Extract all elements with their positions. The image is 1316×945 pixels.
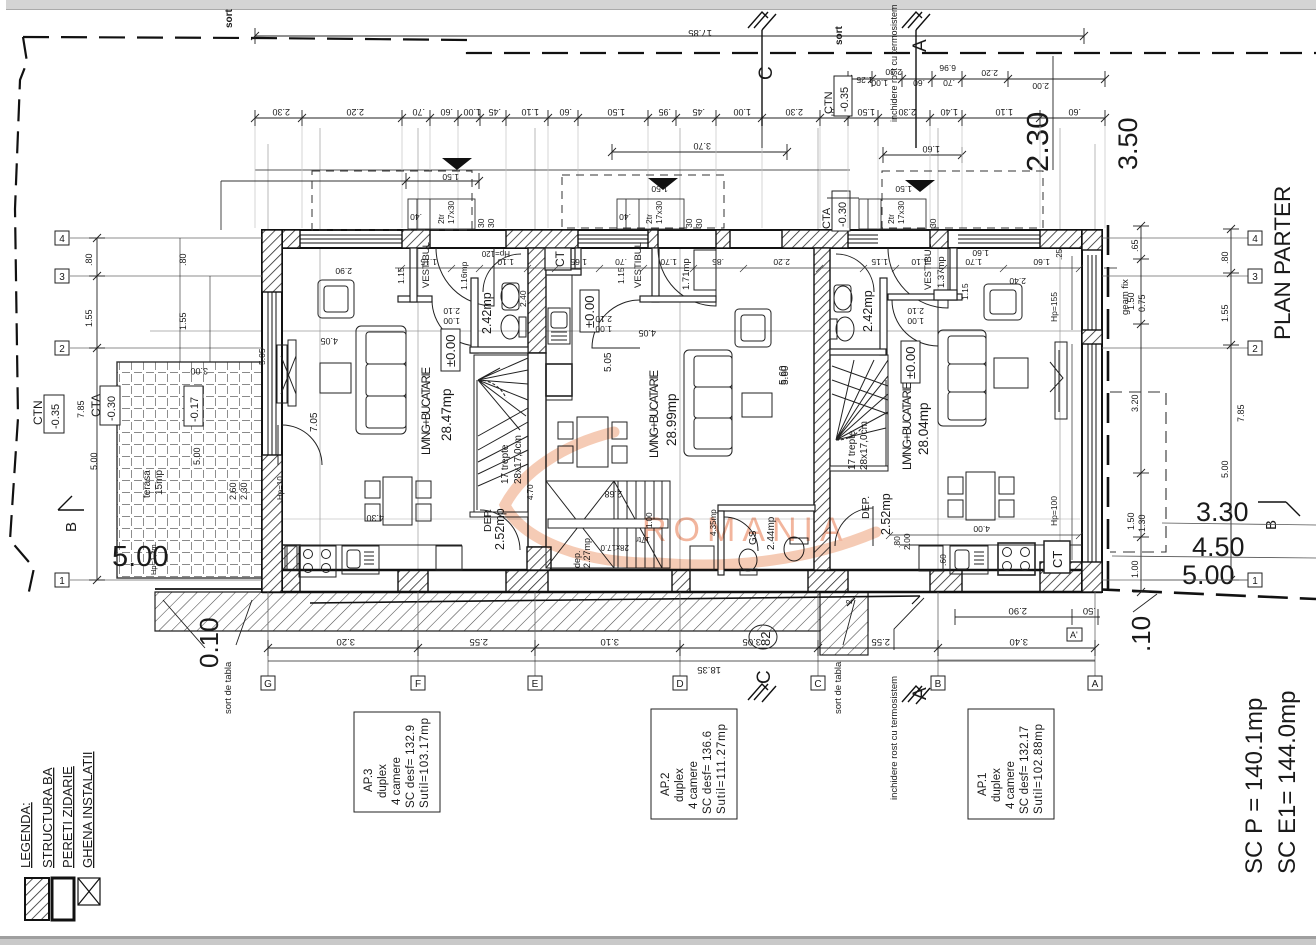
svg-text:2tr: 2tr	[644, 214, 654, 224]
svg-text:1.00: 1.00	[595, 324, 612, 334]
svg-text:2.20: 2.20	[981, 68, 998, 78]
AP3 dep wall	[470, 512, 528, 517]
svg-text:7.05: 7.05	[309, 412, 320, 432]
svg-text:7.85: 7.85	[76, 400, 86, 418]
svg-text:3.20: 3.20	[337, 636, 356, 647]
svg-text:5.00: 5.00	[192, 447, 202, 465]
svg-text:.80: .80	[1220, 251, 1230, 264]
svg-text:1.10: 1.10	[995, 107, 1013, 117]
svg-text:0.10: 0.10	[194, 617, 224, 668]
pier party2 T	[782, 230, 848, 248]
svg-text:±0.00: ±0.00	[582, 296, 597, 328]
svg-text:5.60: 5.60	[778, 365, 789, 385]
AP1 kitchen counter	[900, 544, 1082, 546]
svg-text:1.15: 1.15	[960, 283, 970, 300]
AP3 bath walls	[471, 278, 478, 353]
svg-text:30: 30	[684, 218, 694, 228]
pier top-left corner	[262, 230, 300, 248]
svg-text:geam fix: geam fix	[1120, 279, 1131, 315]
svg-text:1.16mp: 1.16mp	[459, 261, 469, 290]
svg-text:Hp=100: Hp=100	[1049, 496, 1059, 526]
svg-text:3.20: 3.20	[1130, 394, 1140, 412]
svg-text:18.35: 18.35	[697, 664, 721, 675]
svg-text:C: C	[754, 670, 775, 684]
svg-text:.70: .70	[615, 257, 627, 267]
svg-text:1.70: 1.70	[965, 257, 982, 267]
svg-text:.50: .50	[1083, 605, 1096, 616]
AP3 stove	[299, 546, 336, 577]
AP1 vestibul wall	[888, 294, 962, 300]
svg-text:1.50: 1.50	[857, 107, 875, 117]
section mark B left	[58, 496, 84, 510]
svg-text:30: 30	[694, 218, 704, 228]
svg-text:CT: CT	[553, 250, 567, 267]
svg-text:-0.30: -0.30	[106, 396, 118, 421]
svg-text:17x30: 17x30	[896, 201, 906, 224]
svg-text:5.00: 5.00	[1182, 560, 1235, 590]
svg-text:Hp=10: Hp=10	[276, 476, 285, 500]
AP1 bath wc	[836, 317, 854, 341]
svg-text:.40: .40	[410, 212, 422, 222]
pier	[672, 570, 690, 592]
svg-text:.60: .60	[440, 107, 453, 117]
svg-text:A: A	[910, 39, 931, 52]
svg-text:AP.2: AP.2	[660, 773, 672, 796]
svg-text:2.00: 2.00	[902, 533, 912, 550]
svg-text:.25: .25	[1055, 248, 1064, 260]
AP2 armchair	[735, 309, 771, 347]
left exterior wall	[262, 230, 282, 592]
property boundary dashed right	[1090, 225, 1316, 599]
svg-text:SC desf= 132.17: SC desf= 132.17	[1019, 726, 1031, 814]
svg-text:.45: .45	[692, 107, 705, 117]
svg-text:1.50: 1.50	[895, 184, 912, 194]
AP2 stairs straight flight	[546, 481, 670, 568]
svg-text:1: 1	[1252, 576, 1258, 587]
svg-text:-0.35: -0.35	[839, 87, 851, 112]
svg-text:E: E	[532, 679, 539, 690]
AP1 bath walls	[880, 278, 887, 355]
left grid lines	[70, 238, 262, 580]
AP2 GS walls	[718, 505, 815, 511]
AP3 vestibul-living door swing	[432, 300, 478, 346]
AP1 stove	[998, 543, 1035, 575]
terrace tiled	[117, 362, 262, 578]
AP3 sink	[342, 546, 379, 574]
3.70 dim	[608, 144, 791, 160]
legend	[18, 751, 100, 920]
svg-text:B: B	[935, 679, 942, 690]
svg-text:C: C	[814, 679, 821, 690]
pier	[930, 570, 962, 592]
svg-text:±0.00: ±0.00	[903, 347, 918, 379]
right bottom dims 2.90 .50	[955, 609, 1100, 625]
AP3 coffee table	[320, 363, 351, 393]
svg-text:1.55: 1.55	[84, 309, 94, 327]
secondary top-right chain	[844, 56, 1109, 170]
svg-text:duplex: duplex	[991, 768, 1003, 802]
svg-text:±0.00: ±0.00	[443, 335, 458, 367]
svg-text:.40: .40	[619, 212, 631, 222]
svg-text:2.20: 2.20	[346, 107, 364, 117]
svg-text:.70: .70	[412, 107, 425, 117]
svg-text:2.30: 2.30	[239, 482, 249, 500]
AP3 armchair	[318, 280, 354, 318]
svg-text:LIVING+BUCATARIE: LIVING+BUCATARIE	[902, 382, 914, 470]
AP1 dep wall	[830, 466, 888, 471]
AP1 tv	[1055, 342, 1067, 419]
AP2 kitchen bottom small	[690, 546, 714, 570]
svg-text:LIVING+BUCATARIE: LIVING+BUCATARIE	[421, 367, 433, 455]
svg-text:2.30: 2.30	[1020, 112, 1055, 172]
svg-text:sort de tabla: sort de tabla	[223, 661, 234, 714]
svg-text:2: 2	[59, 344, 65, 355]
svg-text:1.00: 1.00	[443, 316, 460, 326]
AP2 dining table	[577, 417, 608, 467]
left dim chain	[89, 234, 210, 584]
svg-text:5.00: 5.00	[112, 541, 168, 573]
svg-text:1.15: 1.15	[616, 267, 626, 284]
svg-text:sort: sort	[224, 8, 235, 28]
right guide lines to 5.00/4.50	[1112, 523, 1316, 580]
AP2 kitchen counter along party wall	[546, 275, 572, 400]
svg-text:2.20: 2.20	[773, 257, 790, 267]
svg-text:Sutil=111.27mp: Sutil=111.27mp	[716, 724, 728, 814]
svg-text:2tr: 2tr	[886, 214, 896, 224]
svg-text:2.52mp: 2.52mp	[879, 493, 893, 535]
left grid bubbles	[55, 231, 69, 587]
svg-text:1.60: 1.60	[922, 144, 940, 154]
svg-text:3.30: 3.30	[1196, 497, 1249, 527]
svg-text:.80: .80	[892, 536, 902, 548]
svg-text:.85: .85	[712, 257, 724, 267]
entrance steps labels	[410, 172, 938, 228]
svg-text:2.68: 2.68	[604, 489, 622, 499]
svg-text:5.00: 5.00	[1220, 460, 1230, 478]
svg-text:.10: .10	[1126, 616, 1156, 652]
pier	[716, 230, 730, 248]
bottom exterior wall	[262, 570, 1102, 592]
AP2 labels	[545, 242, 791, 568]
AP3 bath wc	[501, 315, 519, 339]
pier party1 T	[506, 230, 578, 248]
svg-text:GHENA INSTALATII: GHENA INSTALATII	[80, 751, 95, 868]
svg-text:2.40: 2.40	[518, 290, 528, 307]
property boundary dashed top	[10, 37, 1316, 596]
svg-text:D: D	[676, 679, 683, 690]
AP3 bath sink	[501, 284, 519, 308]
AP3 entrance door swing	[436, 248, 494, 306]
svg-text:Hp=120: Hp=120	[481, 249, 510, 258]
svg-text:B: B	[63, 522, 80, 532]
svg-text:4 camere: 4 camere	[1005, 761, 1017, 809]
AP1 armchair	[984, 284, 1022, 320]
AP.2 info box	[651, 709, 737, 819]
AP3 tv	[277, 345, 287, 403]
pier	[648, 230, 658, 248]
ground hatch strip below building	[155, 589, 1102, 655]
AP3 terrace door swing	[282, 425, 322, 465]
svg-text:1.15: 1.15	[396, 267, 406, 284]
svg-text:3.10: 3.10	[601, 636, 620, 647]
AP1 coffee table	[994, 358, 1028, 388]
svg-text:A: A	[1092, 679, 1099, 690]
pier	[930, 230, 948, 248]
AP3 bath door swing	[483, 254, 521, 292]
svg-text:17x30: 17x30	[446, 201, 456, 224]
AP3 kitchen counter	[285, 544, 462, 546]
svg-text:C: C	[756, 66, 777, 80]
AP3 vestibul walls	[398, 296, 432, 302]
right wall windows	[1088, 255, 1096, 562]
watermark logo	[505, 432, 876, 565]
AP2 sofa	[684, 350, 732, 456]
svg-text:duplex: duplex	[674, 768, 686, 802]
svg-text:-0.30: -0.30	[837, 202, 849, 227]
AP.3 info box	[354, 712, 440, 812]
svg-text:PLAN PARTER: PLAN PARTER	[1270, 186, 1295, 340]
svg-text:28.04mp: 28.04mp	[916, 402, 931, 455]
top wall windows (thin triple lines)	[300, 235, 1040, 243]
svg-text:SC E1= 144.0mp: SC E1= 144.0mp	[1274, 691, 1301, 874]
svg-text:2.00: 2.00	[1032, 81, 1049, 91]
svg-text:17 trepte: 17 trepte	[500, 444, 511, 484]
svg-text:.70: .70	[943, 78, 955, 88]
svg-text:17x30: 17x30	[654, 201, 664, 224]
pier	[398, 570, 428, 592]
svg-text:2: 2	[1252, 344, 1258, 355]
svg-text:1.15: 1.15	[871, 257, 888, 267]
svg-text:AP.3: AP.3	[363, 769, 375, 792]
svg-text:2.55: 2.55	[872, 636, 891, 647]
svg-text:2.10: 2.10	[443, 306, 460, 316]
svg-text:SC P = 140.1mp: SC P = 140.1mp	[1241, 698, 1268, 874]
small step rects at entrances	[221, 181, 926, 230]
entrance canopies dashed	[312, 171, 1043, 230]
svg-text:30: 30	[476, 218, 486, 228]
svg-text:2tr: 2tr	[436, 214, 446, 224]
svg-text:28.99mp: 28.99mp	[664, 393, 679, 446]
svg-text:inchidere rost cu termosistem: inchidere rost cu termosistem	[889, 676, 900, 800]
AP1 dining table	[966, 472, 995, 520]
pier top-right corner	[1040, 230, 1102, 248]
AP2 vestibul wall	[640, 296, 716, 302]
svg-text:terasa: terasa	[142, 470, 153, 498]
AP1 entrance door swing	[888, 248, 948, 308]
svg-text:1.65: 1.65	[570, 257, 587, 267]
svg-text:28x17.0: 28x17.0	[600, 543, 629, 552]
svg-text:2.55: 2.55	[470, 636, 489, 647]
svg-text:.65: .65	[1130, 239, 1140, 252]
svg-text:SC desf= 132.9: SC desf= 132.9	[405, 725, 417, 808]
interior dim line across top rooms	[395, 265, 1083, 272]
left wall window	[268, 292, 276, 455]
svg-text:.95: .95	[658, 107, 671, 117]
svg-text:4: 4	[59, 234, 65, 245]
svg-text:PERETI ZIDARIE: PERETI ZIDARIE	[60, 766, 75, 868]
svg-text:VESTIBUL: VESTIBUL	[633, 242, 644, 288]
svg-text:1.50: 1.50	[442, 172, 459, 182]
svg-text:1.40: 1.40	[940, 107, 958, 117]
svg-text:STRUCTURA BA: STRUCTURA BA	[40, 767, 55, 868]
svg-text:DEP.: DEP.	[860, 496, 872, 519]
svg-text:1.10: 1.10	[911, 257, 928, 267]
svg-text:1.10: 1.10	[521, 107, 539, 117]
entrance arrows	[442, 158, 472, 170]
svg-text:2.90: 2.90	[1009, 605, 1028, 616]
svg-text:1.71mp: 1.71mp	[681, 258, 692, 290]
svg-text:2.30: 2.30	[272, 107, 290, 117]
AP2 coffee table	[742, 393, 772, 417]
svg-text:4.70: 4.70	[526, 484, 535, 500]
svg-text:1.00: 1.00	[1130, 560, 1140, 578]
pier bottom-left corner	[262, 545, 300, 592]
svg-text:sort: sort	[834, 25, 845, 45]
AP1 labels	[778, 244, 1070, 573]
svg-text:30: 30	[486, 218, 496, 228]
svg-text:28.47mp: 28.47mp	[439, 388, 454, 441]
section mark A bottom	[902, 686, 930, 704]
main top dim chain	[251, 110, 1109, 126]
svg-text:1.50: 1.50	[607, 107, 625, 117]
svg-text:Sutil=103.17mp: Sutil=103.17mp	[419, 718, 431, 808]
AP.1 info box	[968, 709, 1054, 819]
svg-text:2.42mp: 2.42mp	[480, 292, 494, 334]
svg-text:1.10: 1.10	[497, 257, 514, 267]
faint construction grid verticals	[268, 128, 1095, 592]
svg-text:1.55: 1.55	[178, 312, 188, 330]
svg-text:.60: .60	[913, 78, 925, 88]
1.60 dims	[879, 147, 966, 163]
svg-text:2.30: 2.30	[785, 107, 803, 117]
svg-text:3.40: 3.40	[1010, 636, 1029, 647]
pier	[506, 570, 548, 592]
svg-text:inchidere rost cu termosistem: inchidere rost cu termosistem	[889, 4, 899, 122]
svg-text:CTA: CTA	[821, 207, 833, 229]
svg-text:3: 3	[1252, 272, 1258, 283]
svg-text:1.37mp: 1.37mp	[936, 256, 947, 288]
AP2 entrance door swing	[658, 248, 716, 306]
top exterior wall	[262, 230, 1102, 248]
svg-text:2.10: 2.10	[595, 314, 612, 324]
svg-text:.60: .60	[938, 554, 948, 566]
svg-text:A': A'	[1070, 630, 1078, 640]
svg-text:1: 1	[59, 576, 65, 587]
svg-text:CTN: CTN	[823, 91, 835, 114]
svg-text:.80: .80	[178, 253, 188, 266]
svg-text:2: 2	[845, 599, 854, 604]
svg-text:F: F	[415, 679, 421, 690]
svg-text:4 camere: 4 camere	[391, 757, 403, 805]
svg-text:3.70: 3.70	[693, 141, 711, 151]
svg-text:5.05: 5.05	[603, 352, 614, 372]
svg-text:Hp=155: Hp=155	[1049, 292, 1059, 322]
svg-text:1.00: 1.00	[907, 316, 924, 326]
svg-text:17.85: 17.85	[688, 27, 712, 38]
svg-text:2.40: 2.40	[1009, 276, 1026, 286]
bottom dim chain	[264, 640, 1099, 661]
svg-text:.60: .60	[1068, 107, 1081, 117]
svg-text:sort de tabla: sort de tabla	[833, 661, 844, 714]
svg-text:Sutil=102.88mp: Sutil=102.88mp	[1033, 724, 1045, 814]
AP1 stairs fan	[830, 355, 888, 470]
svg-text:CTN: CTN	[31, 400, 45, 425]
svg-text:4 camere: 4 camere	[688, 761, 700, 809]
party wall 1 (AP3/AP2) hatched	[528, 248, 546, 353]
svg-text:4: 4	[1252, 234, 1258, 245]
top gray scan band	[6, 0, 1316, 9]
circle 82	[749, 625, 777, 649]
section mark B right	[1258, 502, 1300, 516]
pier	[402, 230, 430, 248]
svg-text:2.60: 2.60	[228, 482, 238, 500]
svg-text:-0.17: -0.17	[189, 397, 201, 422]
svg-text:30: 30	[928, 218, 938, 228]
svg-text:2.10: 2.10	[907, 306, 924, 316]
bottom wall inner dark line	[262, 569, 1102, 572]
svg-text:2.30: 2.30	[898, 107, 916, 117]
svg-text:1.00: 1.00	[463, 107, 481, 117]
AP2 CT closet walls	[575, 248, 581, 275]
svg-text:4.30: 4.30	[366, 513, 384, 523]
svg-text:17 trepte: 17 trepte	[847, 430, 858, 470]
svg-text:82: 82	[758, 632, 773, 646]
svg-text:5.00: 5.00	[89, 452, 99, 470]
bottom grid bubbles	[261, 676, 1102, 690]
bottom gray scan band	[0, 936, 1316, 939]
faint level line across	[150, 330, 1082, 332]
AP2 GS wc	[739, 549, 757, 571]
-0.17 boxed on terrace	[184, 386, 203, 426]
svg-text:5.05: 5.05	[257, 348, 267, 365]
svg-text:1.55: 1.55	[1220, 304, 1230, 322]
svg-text:3: 3	[59, 272, 65, 283]
section mark A top	[902, 12, 930, 148]
svg-text:4.05: 4.05	[320, 336, 338, 346]
svg-text:4.05: 4.05	[638, 328, 656, 338]
right exterior wall	[1082, 230, 1102, 592]
svg-text:3.00: 3.00	[190, 366, 208, 376]
svg-text:SC desf= 136.6: SC desf= 136.6	[702, 731, 714, 814]
svg-text:A: A	[910, 687, 931, 700]
svg-text:3.50: 3.50	[1113, 117, 1143, 170]
dim 3.40 with ticks bottom right	[938, 659, 1095, 661]
bottom grid extension lines	[268, 592, 1095, 676]
svg-text:.80: .80	[84, 253, 94, 266]
svg-text:1.30: 1.30	[1137, 514, 1147, 532]
svg-text:1.50: 1.50	[1126, 512, 1136, 530]
svg-text:B: B	[1263, 520, 1280, 530]
right dim chains	[1133, 222, 1239, 596]
pier bottom-right corner	[1040, 562, 1102, 592]
svg-text:1.60: 1.60	[972, 248, 989, 258]
section mark C bottom	[748, 684, 776, 702]
svg-text:LEGENDA:: LEGENDA:	[18, 802, 33, 868]
svg-text:2.90: 2.90	[335, 266, 352, 276]
svg-text:.60: .60	[559, 107, 572, 117]
svg-text:-0.35: -0.35	[50, 404, 62, 429]
svg-text:LIVING+BUCATARIE: LIVING+BUCATARIE	[649, 370, 661, 458]
svg-text:28x17,0cm: 28x17,0cm	[859, 421, 870, 470]
svg-text:G: G	[264, 679, 272, 690]
AP3 stairs	[474, 355, 528, 516]
svg-text:AP.1: AP.1	[977, 773, 989, 796]
party wall 2 (AP2/AP1 joint) hatched	[814, 248, 830, 570]
svg-text:1.25: 1.25	[856, 75, 873, 85]
svg-text:1.50: 1.50	[651, 184, 668, 194]
svg-text:2.42mp: 2.42mp	[861, 290, 875, 332]
right grid lines	[1102, 238, 1248, 580]
